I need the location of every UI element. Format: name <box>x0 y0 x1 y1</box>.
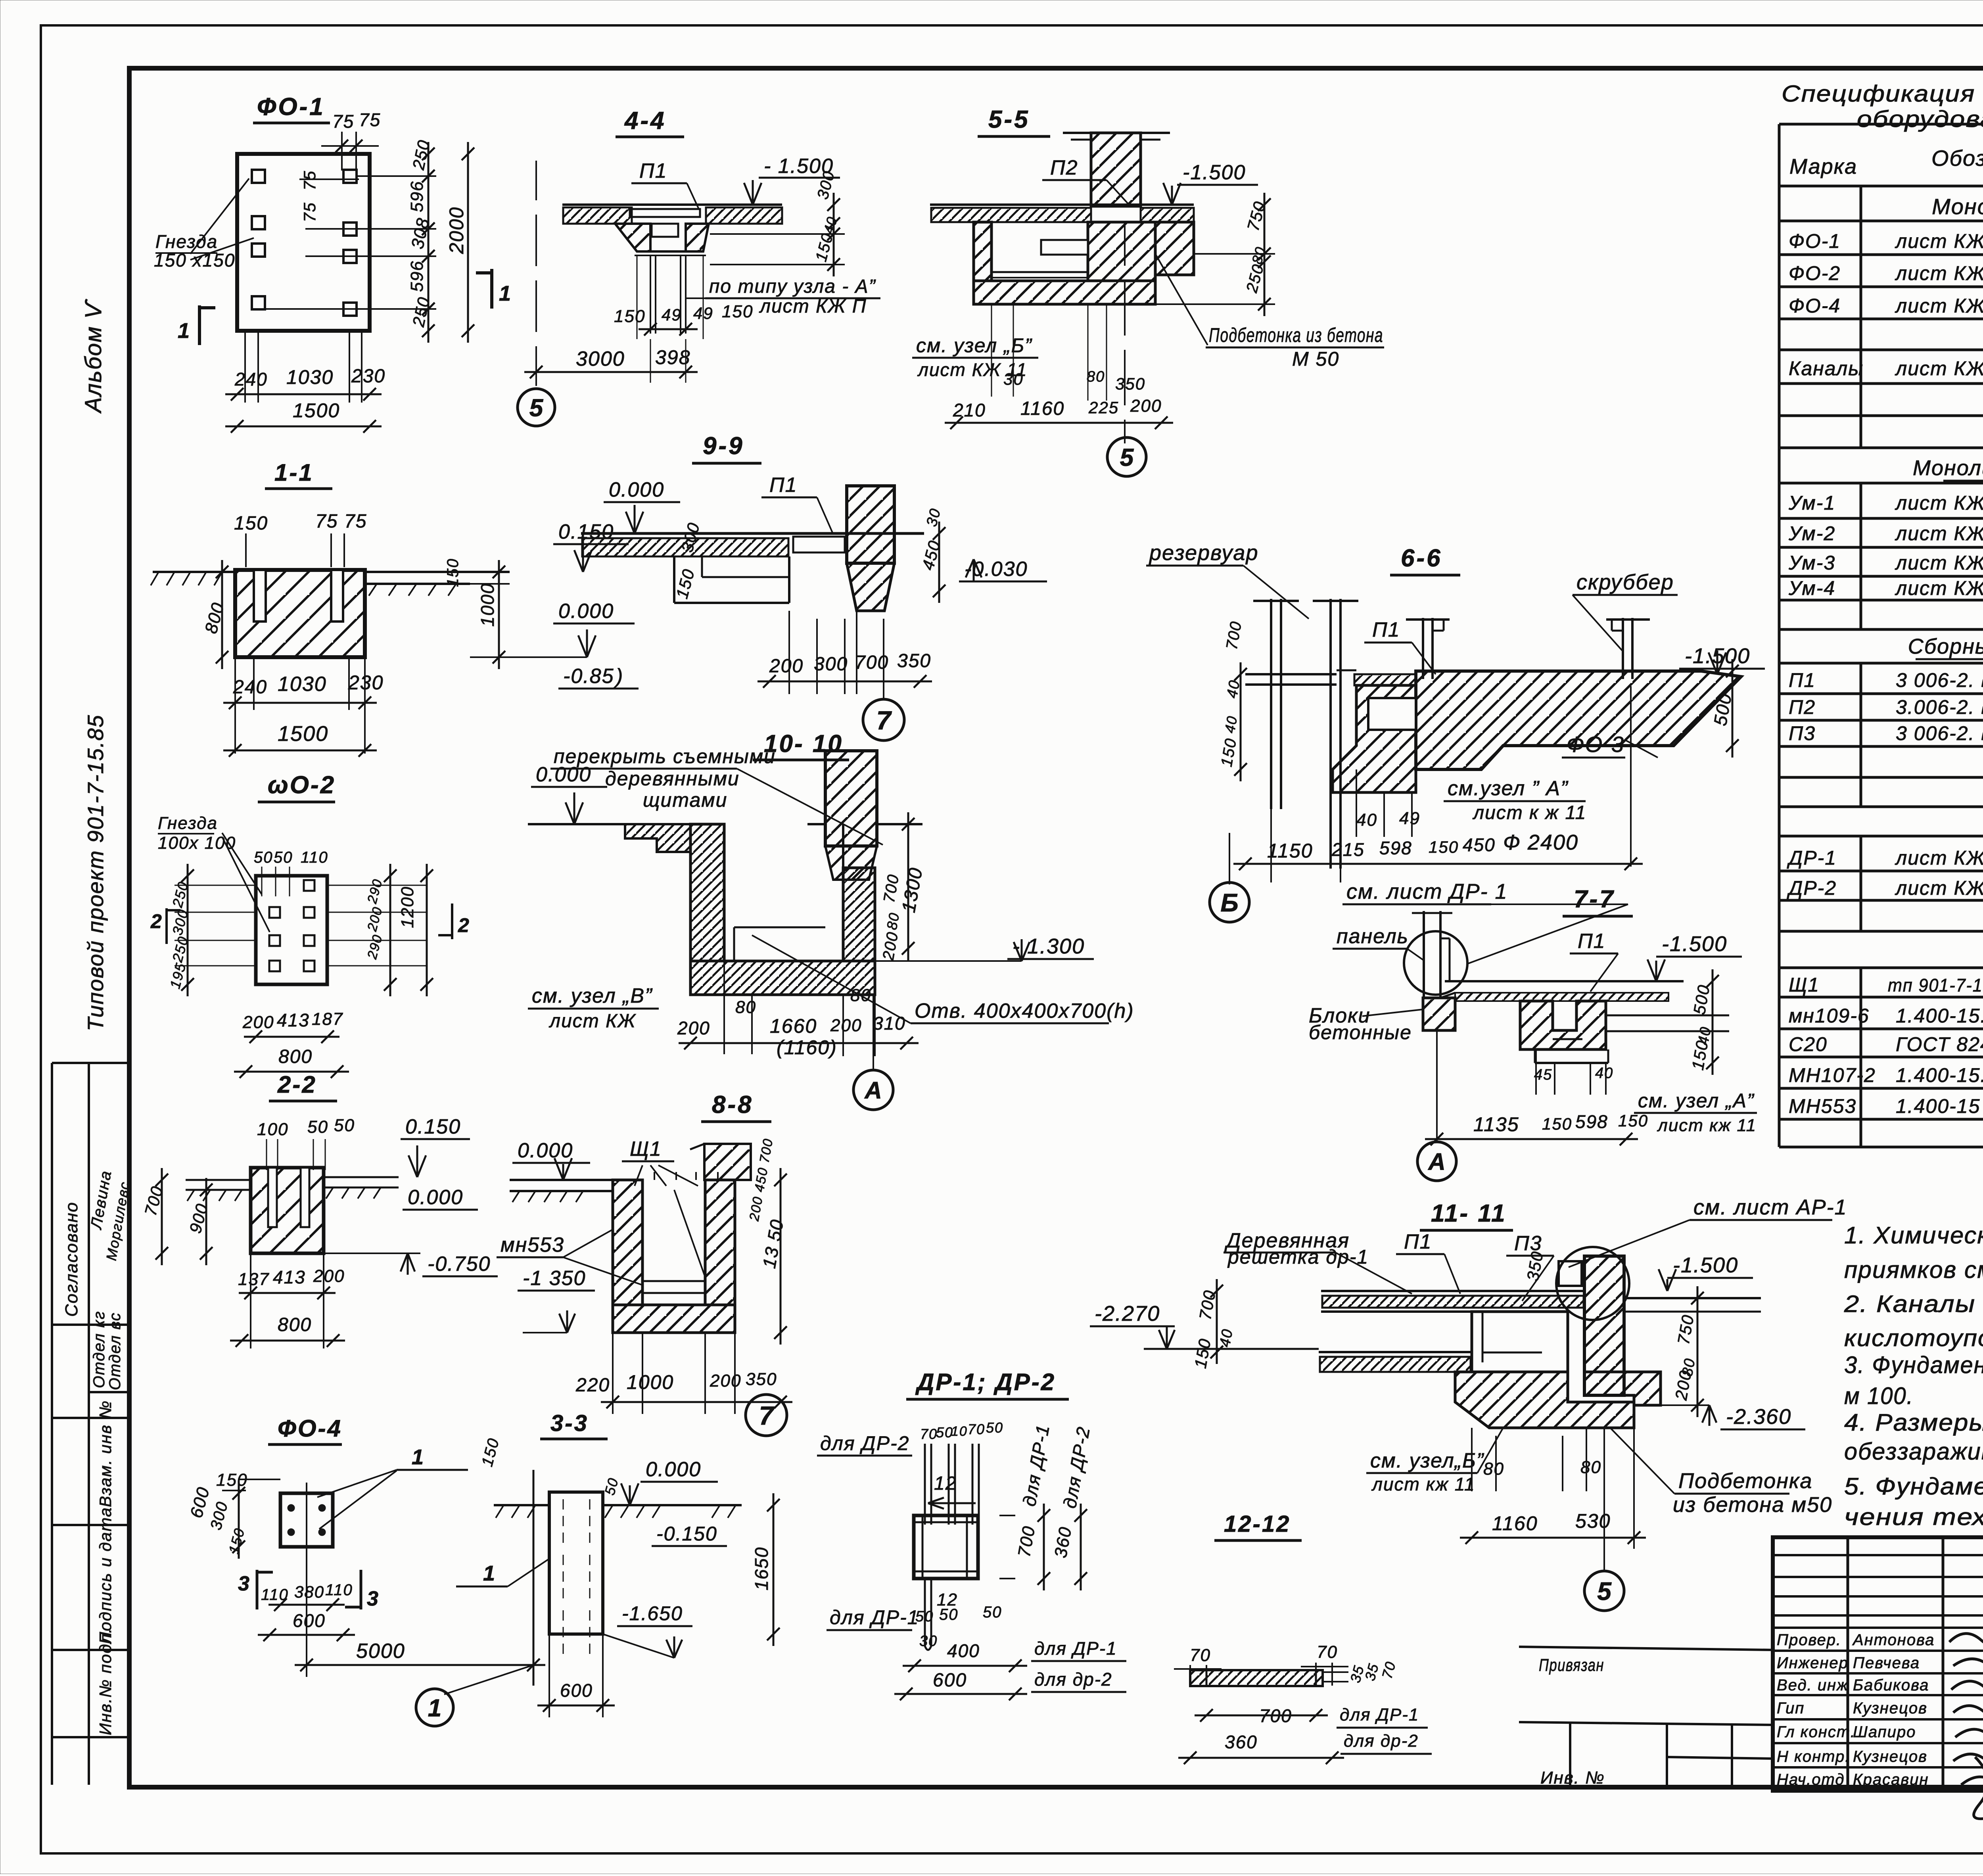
svg-text:80: 80 <box>1087 368 1105 385</box>
svg-text:скруббер: скруббер <box>1576 570 1674 594</box>
6-6 scrubber centerline dash-dot <box>1630 686 1632 867</box>
svg-text:лист кж 11: лист кж 11 <box>1371 1474 1475 1494</box>
svg-text:-0.750: -0.750 <box>428 1253 491 1276</box>
svg-text:413: 413 <box>273 1267 306 1287</box>
svg-text:150 х150: 150 х150 <box>154 250 235 270</box>
svg-text:7-7: 7-7 <box>1574 886 1615 913</box>
svg-text:Ум-4: Ум-4 <box>1788 577 1835 599</box>
1-1 floor slab right <box>365 571 510 573</box>
8-8 top right corner hatch <box>704 1144 751 1180</box>
svg-text:Взам. инв №: Взам. инв № <box>96 1400 115 1507</box>
svg-text:1: 1 <box>499 282 512 305</box>
svg-text:1: 1 <box>428 1694 441 1722</box>
svg-text:ФО-1: ФО-1 <box>257 93 325 121</box>
svg-text:Гип: Гип <box>1777 1700 1805 1717</box>
svg-text:600: 600 <box>560 1680 593 1701</box>
svg-text:лист КЖ-9: лист КЖ-9 <box>1895 357 1983 380</box>
svg-text:1000: 1000 <box>627 1371 674 1393</box>
svg-text:для др-2: для др-2 <box>1344 1731 1419 1751</box>
svg-text:215: 215 <box>1331 839 1365 860</box>
svg-text:1650: 1650 <box>751 1547 772 1590</box>
svg-text:5: 5 <box>1597 1577 1612 1606</box>
svg-text:50: 50 <box>986 1419 1003 1436</box>
svg-text:Инженер: Инженер <box>1777 1654 1849 1672</box>
svg-text:12: 12 <box>937 1590 958 1609</box>
ДР ladder top rods <box>925 1444 979 1525</box>
svg-text:лист кж 11: лист кж 11 <box>1657 1116 1757 1135</box>
svg-text:3000: 3000 <box>576 347 625 370</box>
svg-text:12-12: 12-12 <box>1224 1511 1291 1537</box>
svg-text:12: 12 <box>934 1473 957 1494</box>
svg-text:Ум-1: Ум-1 <box>1788 492 1835 514</box>
svg-text:Каналы: Каналы <box>1789 357 1864 380</box>
svg-text:Типовой проект 901-7-15.85: Типовой проект 901-7-15.85 <box>83 714 108 1031</box>
6-6 reservoir wall lines <box>1270 599 1272 809</box>
10-10 column above hatched <box>825 751 877 846</box>
svg-text:-0.150: -0.150 <box>656 1523 717 1545</box>
svg-text:3 006-2. вып.П-2: 3 006-2. вып.П-2 <box>1896 669 1983 691</box>
svg-text:Певчева: Певчева <box>1853 1654 1920 1672</box>
11-11 detail bubble <box>1556 1247 1629 1320</box>
svg-text:10: 10 <box>951 1424 968 1439</box>
svg-text:Ф 2400: Ф 2400 <box>1503 831 1578 854</box>
svg-text:Отв. 400х400х700(h): Отв. 400х400х700(h) <box>915 999 1134 1022</box>
svg-text:2: 2 <box>150 910 163 932</box>
svg-text:150: 150 <box>722 302 753 321</box>
svg-text:лист КЖ-9: лист КЖ-9 <box>1895 262 1983 284</box>
ФО-1 right dimension 2000 <box>467 142 469 343</box>
svg-text:50: 50 <box>254 849 273 866</box>
svg-text:1000: 1000 <box>477 583 498 627</box>
svg-text:см. узел „В”: см. узел „В” <box>532 984 653 1007</box>
svg-text:150: 150 <box>1542 1114 1572 1133</box>
1-1 ground line left <box>153 571 236 573</box>
svg-text:150: 150 <box>444 558 462 587</box>
svg-text:80: 80 <box>1483 1459 1504 1479</box>
2-2 bottom dims 137 413 200 / 800 <box>250 1253 251 1348</box>
svg-text:по типу узла - А”: по типу узла - А” <box>709 276 876 297</box>
svg-text:70: 70 <box>1317 1642 1338 1662</box>
svg-text:Монолитные бетонные конструкц: Монолитные бетонные конструкции <box>1932 194 1983 219</box>
2-2 bolt sleeves <box>268 1168 277 1227</box>
svg-text:бетонные: бетонные <box>1309 1021 1412 1044</box>
svg-text:см. узел „А”: см. узел „А” <box>1638 1090 1755 1112</box>
svg-text:решетка др-1: решетка др-1 <box>1227 1246 1369 1268</box>
11-11 foundation hatched mass <box>1455 1372 1634 1428</box>
svg-text:350: 350 <box>1115 374 1145 393</box>
svg-text:см. узел„Б”: см. узел„Б” <box>1370 1449 1484 1472</box>
svg-text:240: 240 <box>234 369 268 389</box>
svg-text:700: 700 <box>1259 1705 1292 1726</box>
svg-text:75: 75 <box>344 511 367 532</box>
svg-text:100: 100 <box>257 1120 288 1139</box>
svg-text:см. лист ДР- 1: см. лист ДР- 1 <box>1346 880 1508 903</box>
10-10 ground top line <box>528 823 625 825</box>
svg-text:3 006-2. вып.П-2: 3 006-2. вып.П-2 <box>1896 722 1983 744</box>
svg-text:Гнезда: Гнезда <box>155 231 218 252</box>
svg-text:5: 5 <box>529 394 544 422</box>
svg-text:380: 380 <box>294 1583 324 1601</box>
3-3 right dim 1650 <box>773 1493 775 1646</box>
svg-text:1.400-15 вып.1: 1.400-15 вып.1 <box>1896 1095 1983 1117</box>
2-2 floor slab right <box>324 1176 399 1178</box>
svg-text:Альбом Ѵ: Альбом Ѵ <box>81 299 106 414</box>
svg-text:40: 40 <box>1356 810 1377 830</box>
title block left: Привязан area <box>1519 1647 1773 1650</box>
svg-text:лист КЖ-14: лист КЖ-14 <box>1895 577 1983 599</box>
svg-text:7: 7 <box>759 1401 775 1430</box>
svg-text:панель: панель <box>1337 925 1409 948</box>
8-8 inner plate lines <box>642 1280 705 1282</box>
11-11 lower slab hatched <box>1319 1351 1472 1353</box>
svg-text:5000: 5000 <box>356 1640 405 1663</box>
6-6 scrubber wall lines <box>1422 618 1424 679</box>
svg-text:1. Химическую защиту конс: 1. Химическую защиту конструкций каналов… <box>1844 1222 1983 1249</box>
svg-text:50: 50 <box>307 1117 328 1137</box>
svg-text:П3: П3 <box>1789 722 1816 744</box>
5-5 column above slab hatched <box>1063 132 1170 134</box>
svg-text:лист КЖ-9: лист КЖ-9 <box>1895 877 1983 899</box>
svg-text:350: 350 <box>897 650 931 671</box>
svg-text:Инв.№ подл.: Инв.№ подл. <box>96 1628 115 1735</box>
12-12 bottom dims 700 360 <box>1195 1715 1328 1717</box>
svg-text:600: 600 <box>293 1610 326 1631</box>
svg-text:40: 40 <box>1222 714 1241 734</box>
svg-text:ФО-3: ФО-3 <box>1567 732 1624 757</box>
11-11 channel below <box>1472 1312 1568 1372</box>
ФО-1 bottom dimension 1500 <box>225 426 382 428</box>
svg-text:110: 110 <box>301 849 328 866</box>
svg-text:лист КЖ-14: лист КЖ-14 <box>1895 552 1983 574</box>
11-11 column hatched <box>1584 1256 1624 1395</box>
8-8 right rotated dims 1350 <box>780 1168 782 1345</box>
svg-text:50: 50 <box>334 1116 355 1135</box>
ФО-1 bottom dimension 240 1030 230 <box>244 331 246 403</box>
10-10 channel inner lines <box>723 824 725 961</box>
svg-text:1135: 1135 <box>1473 1113 1519 1136</box>
ФО-4 bottom dims 110 380 110 600 <box>268 1604 345 1606</box>
svg-text:2: 2 <box>458 914 470 936</box>
svg-text:200: 200 <box>313 1266 345 1286</box>
ДР ladder frame <box>914 1515 978 1579</box>
svg-text:П1: П1 <box>1404 1230 1432 1253</box>
svg-text:мн109-6: мн109-6 <box>1789 1005 1870 1027</box>
9-9 column hatched <box>847 486 894 563</box>
svg-text:450: 450 <box>1463 834 1496 855</box>
svg-text:0.150: 0.150 <box>405 1115 461 1138</box>
svg-text:Обозначение: Обозначение <box>1931 146 1983 171</box>
svg-text:Монолитные железобетонные кон: Монолитные железобетонные конструкции <box>1913 456 1983 480</box>
svg-text:1150: 1150 <box>1267 840 1313 862</box>
svg-text:598: 598 <box>1379 838 1412 858</box>
svg-text:49: 49 <box>1399 809 1420 828</box>
5-5 floor slab band <box>930 203 1194 206</box>
svg-text:0.000: 0.000 <box>558 600 614 623</box>
svg-text:ФО-4: ФО-4 <box>278 1415 342 1442</box>
svg-text:2000: 2000 <box>445 207 468 254</box>
svg-text:П1: П1 <box>769 474 798 497</box>
7-7 floor slab band <box>1445 980 1684 982</box>
svg-text:1: 1 <box>412 1445 424 1469</box>
ФО-4 axis circle 1 <box>416 1689 453 1726</box>
svg-text:Гл конст.: Гл конст. <box>1777 1723 1856 1741</box>
svg-text:200: 200 <box>1130 396 1162 416</box>
8-8 ticks on slab top <box>654 1172 718 1180</box>
svg-text:0.000: 0.000 <box>609 478 664 501</box>
4-4 pit funnel hatched walls <box>615 224 650 251</box>
7-7 axis circle А <box>1436 1030 1438 1141</box>
svg-text:598: 598 <box>1575 1111 1608 1132</box>
ФО-2 left dim chain <box>187 864 189 996</box>
svg-text:Нач.отд: Нач.отд <box>1777 1771 1845 1788</box>
ФО-2 bolt squares <box>269 907 280 918</box>
svg-text:лист КЖ-14: лист КЖ-14 <box>1895 522 1983 545</box>
svg-text:МН107-2: МН107-2 <box>1789 1064 1876 1086</box>
svg-text:150: 150 <box>234 513 268 534</box>
svg-text:Провер.: Провер. <box>1777 1631 1841 1649</box>
svg-text:75: 75 <box>300 170 319 190</box>
svg-text:1160: 1160 <box>1020 398 1064 419</box>
svg-text:240: 240 <box>233 677 267 698</box>
svg-text:Шапиро: Шапиро <box>1853 1723 1916 1741</box>
svg-text:для ДР-1: для ДР-1 <box>1034 1638 1117 1659</box>
svg-text:-0.85: -0.85 <box>563 665 614 688</box>
svg-text:800: 800 <box>278 1314 312 1335</box>
svg-text:Красавин: Красавин <box>1853 1771 1929 1788</box>
svg-text:Согласовано: Согласовано <box>62 1202 81 1317</box>
svg-text:см.узел ” А”: см.узел ” А” <box>1448 777 1569 800</box>
8-8 bottom dims 220 1000 200 350 <box>601 1401 792 1403</box>
10-10 axis circle А <box>873 995 874 1071</box>
svg-text:А: А <box>864 1077 882 1104</box>
svg-text:150: 150 <box>614 307 645 326</box>
svg-text:ФО-1: ФО-1 <box>1789 230 1841 252</box>
svg-text:лист КЖ-9, 10: лист КЖ-9, 10 <box>1895 295 1983 317</box>
title block names-table row lines <box>1773 1554 1983 1556</box>
svg-text:2-2: 2-2 <box>277 1071 317 1098</box>
svg-text:ДР-1; ДР-2: ДР-1; ДР-2 <box>915 1369 1056 1395</box>
svg-text:оборудование и перекрытия: оборудование и перекрытия каналов <box>1857 106 1983 132</box>
6-6 bottom dim chain 1150 215 598 150 450 Ф2400 <box>1233 863 1643 865</box>
svg-text:200: 200 <box>710 1371 741 1391</box>
svg-text:лист к ж 11: лист к ж 11 <box>1472 802 1586 823</box>
svg-text:210: 210 <box>953 400 986 420</box>
svg-text:ГОСТ 8240-72: ГОСТ 8240-72 <box>1896 1033 1983 1055</box>
10-10 channel walls hatched <box>625 824 690 852</box>
1-1 bolt sleeves <box>254 570 266 621</box>
svg-text:чения технологического обору: чения технологического оборудования. <box>1844 1504 1983 1530</box>
svg-text:ωО-2: ωО-2 <box>268 771 336 799</box>
ФО-1 anchor bolt squares <box>252 170 265 183</box>
1-1 right dim 1000 rotated <box>498 560 500 669</box>
svg-text:Ум-2: Ум-2 <box>1788 522 1835 545</box>
svg-text:см. узел „Б”: см. узел „Б” <box>916 334 1032 357</box>
svg-text:ФО-4: ФО-4 <box>1789 295 1841 317</box>
svg-text:70: 70 <box>1190 1646 1211 1665</box>
svg-text:1-1: 1-1 <box>274 459 314 486</box>
6-6 top slab thin band <box>1245 673 1337 675</box>
svg-text:Антонова: Антонова <box>1852 1631 1935 1649</box>
ФО-1 right dimension chain 250 596 308 596 250 <box>428 142 430 188</box>
svg-text:5-5: 5-5 <box>988 106 1030 133</box>
ФО-1 bolt centerlines <box>357 175 436 177</box>
4-4 axis dash-dot line <box>535 161 537 386</box>
svg-text:МН553: МН553 <box>1789 1095 1856 1117</box>
svg-text:П2: П2 <box>1789 696 1816 718</box>
ФО-4 dim 5000 and axis <box>295 1664 545 1666</box>
svg-text:для др-2: для др-2 <box>1034 1669 1112 1690</box>
svg-text:-1.500: -1.500 <box>1183 161 1246 184</box>
svg-text:-2.270: -2.270 <box>1095 1302 1160 1325</box>
svg-text:0.000: 0.000 <box>646 1458 701 1481</box>
12-12 slab band hatched <box>1190 1670 1323 1686</box>
svg-text:1200: 1200 <box>398 886 417 928</box>
svg-text:3: 3 <box>367 1587 379 1610</box>
svg-text:80: 80 <box>884 911 903 931</box>
svg-text:50: 50 <box>983 1604 1002 1621</box>
9-9 axis circle 7 <box>883 619 884 698</box>
8-8 floor slab left <box>510 1179 613 1181</box>
9-9 step structure lines <box>673 556 675 603</box>
9-9 floor slab <box>581 532 924 535</box>
svg-text:Подбетонка: Подбетонка <box>1678 1469 1812 1493</box>
svg-text:1030: 1030 <box>286 366 334 388</box>
svg-text:0.000: 0.000 <box>536 763 591 786</box>
svg-text:600: 600 <box>933 1670 967 1691</box>
svg-text:150: 150 <box>1618 1111 1648 1130</box>
svg-text:310: 310 <box>873 1013 906 1034</box>
svg-text:ФО-2: ФО-2 <box>1789 262 1841 284</box>
5-5 pit structure hatched <box>974 222 991 281</box>
svg-text:530: 530 <box>1575 1510 1611 1532</box>
svg-text:Привязан: Привязан <box>1539 1655 1604 1675</box>
svg-text:225: 225 <box>1088 398 1119 417</box>
svg-text:1660: 1660 <box>770 1015 817 1037</box>
11-11 axis circle 5 <box>1603 1428 1605 1570</box>
svg-text:137: 137 <box>238 1270 269 1289</box>
4-4 floor slab band with plate recess <box>562 203 782 206</box>
svg-text:лист КЖ-9: лист КЖ-9 <box>1895 847 1983 869</box>
svg-text:мн553: мн553 <box>501 1233 564 1256</box>
svg-text:110: 110 <box>325 1581 353 1599</box>
svg-text:резервуар: резервуар <box>1149 541 1258 565</box>
ФО-2 plan outline <box>256 876 327 984</box>
ДР bottom rods <box>925 1579 931 1646</box>
svg-text:50: 50 <box>915 1608 934 1625</box>
svg-text:0.000: 0.000 <box>518 1139 573 1162</box>
svg-text:5. Фундаменты ФО-1 и ФО-2: 5. Фундаменты ФО-1 и ФО-2 выполнять посл… <box>1844 1473 1983 1500</box>
svg-text:тп 901-7-15.85 -КЖН Щ1: тп 901-7-15.85 -КЖН Щ1 <box>1888 975 1983 996</box>
svg-text:-1.500: -1.500 <box>1673 1253 1738 1277</box>
svg-text:для ДР-1: для ДР-1 <box>1340 1705 1419 1724</box>
7-7 hatched pier below <box>1423 998 1455 1030</box>
svg-text:П2: П2 <box>1050 156 1078 179</box>
svg-text:-1.500: -1.500 <box>1662 932 1727 956</box>
svg-text:Кузнецов: Кузнецов <box>1853 1748 1927 1765</box>
svg-text:1160: 1160 <box>1492 1512 1538 1535</box>
svg-text:Вед. инж: Вед. инж <box>1777 1677 1849 1694</box>
svg-text:75: 75 <box>300 202 319 222</box>
svg-text:для ДР-2: для ДР-2 <box>820 1432 909 1454</box>
svg-text:Отдел вс: Отдел вс <box>106 1312 124 1390</box>
4-4 grid axis circle 5 <box>518 389 555 426</box>
6-6 foundation ФО-3 big hatched mass <box>1416 671 1741 769</box>
3-3 column <box>549 1492 603 1634</box>
svg-text:Марка: Марка <box>1789 155 1857 178</box>
svg-text:75: 75 <box>359 109 381 130</box>
svg-text:200: 200 <box>830 1016 862 1035</box>
svg-text:деревянными: деревянными <box>605 767 740 790</box>
7-7 wall above slab <box>1423 911 1425 998</box>
svg-text:Подбетонка из бетона: Подбетонка из бетона <box>1209 324 1383 346</box>
svg-text:Щ1: Щ1 <box>630 1137 662 1161</box>
6-6 axis circle Б <box>1229 833 1230 884</box>
svg-text:350: 350 <box>746 1370 777 1389</box>
svg-text:П1: П1 <box>1372 618 1400 641</box>
svg-text:Подпись и дата: Подпись и дата <box>96 1507 115 1644</box>
svg-text:М 50: М 50 <box>1292 348 1339 370</box>
svg-text:кислотоупорного бетона м200: кислотоупорного бетона м200. <box>1844 1325 1983 1351</box>
left stamp boxes grid <box>52 1062 129 1064</box>
svg-text:А: А <box>1427 1149 1445 1175</box>
svg-text:лист КЖ-9: лист КЖ-9 <box>1895 230 1983 252</box>
svg-text:2. Каналы и фундаменты Ф: 2. Каналы и фундаменты ФО-3 выполнять из <box>1844 1291 1983 1317</box>
svg-text:200: 200 <box>242 1013 274 1032</box>
svg-text:Щ1: Щ1 <box>1789 974 1820 996</box>
svg-text:3.006-2. вып.П-2: 3.006-2. вып.П-2 <box>1896 696 1983 718</box>
svg-text:800: 800 <box>278 1046 313 1067</box>
ФО-2 right dim chain 1200 <box>389 864 391 996</box>
svg-text:-2.360: -2.360 <box>1726 1405 1791 1429</box>
svg-text:187: 187 <box>312 1009 343 1029</box>
ФО-4 plan rect <box>280 1493 333 1547</box>
svg-text:С20: С20 <box>1789 1033 1828 1055</box>
svg-text:40: 40 <box>1595 1065 1613 1082</box>
7-7 bottom dims 1135 150 598 150 <box>1425 1138 1638 1140</box>
svg-text:см. лист АР-1: см. лист АР-1 <box>1693 1195 1847 1219</box>
svg-text:4. Размеры приямка в скоба: 4. Размеры приямка в скобах даны для вар… <box>1844 1409 1983 1436</box>
11-11 bottom dims 1160 530 <box>1460 1537 1646 1539</box>
svg-text:300: 300 <box>814 654 848 675</box>
svg-text:П1: П1 <box>1789 669 1816 691</box>
svg-text:П1: П1 <box>639 159 667 182</box>
svg-text:обеззараживания. сточных вод.: обеззараживания. сточных вод. <box>1844 1438 1983 1465</box>
svg-text:1.400-15. вып.1: 1.400-15. вып.1 <box>1896 1005 1983 1027</box>
svg-text:1500: 1500 <box>293 399 340 422</box>
svg-text:200: 200 <box>677 1018 710 1038</box>
8-8 axis circle 7 <box>746 1395 787 1436</box>
svg-text:3. Фундаменты ФО-1; ФО-2; Ф: 3. Фундаменты ФО-1; ФО-2; ФО-4 выполнять… <box>1844 1352 1983 1378</box>
svg-text:5: 5 <box>1120 444 1134 471</box>
svg-text:щитами: щитами <box>643 789 727 811</box>
svg-text:ДР-2: ДР-2 <box>1787 877 1837 899</box>
title block signatures scrawl <box>1949 1634 1983 1819</box>
svg-text:70: 70 <box>968 1421 985 1437</box>
svg-text:0.000: 0.000 <box>408 1186 463 1209</box>
svg-text:230: 230 <box>351 366 385 387</box>
svg-text:150: 150 <box>1429 838 1459 856</box>
svg-text:220: 220 <box>575 1375 610 1396</box>
svg-text:Отдел кг: Отдел кг <box>90 1311 108 1388</box>
3-3 bottom dim 600 <box>537 1705 615 1707</box>
svg-text:6-6: 6-6 <box>1401 545 1442 572</box>
11-11 deck slab band <box>1321 1290 1584 1292</box>
svg-text:Спецификация к схеме располо: Спецификация к схеме расположения фундам… <box>1782 81 1983 107</box>
spec table grid <box>1779 124 1983 1147</box>
svg-text:Бабикова: Бабикова <box>1853 1677 1929 1694</box>
svg-text:7: 7 <box>876 706 892 735</box>
svg-text:Гнезда: Гнезда <box>158 813 218 833</box>
